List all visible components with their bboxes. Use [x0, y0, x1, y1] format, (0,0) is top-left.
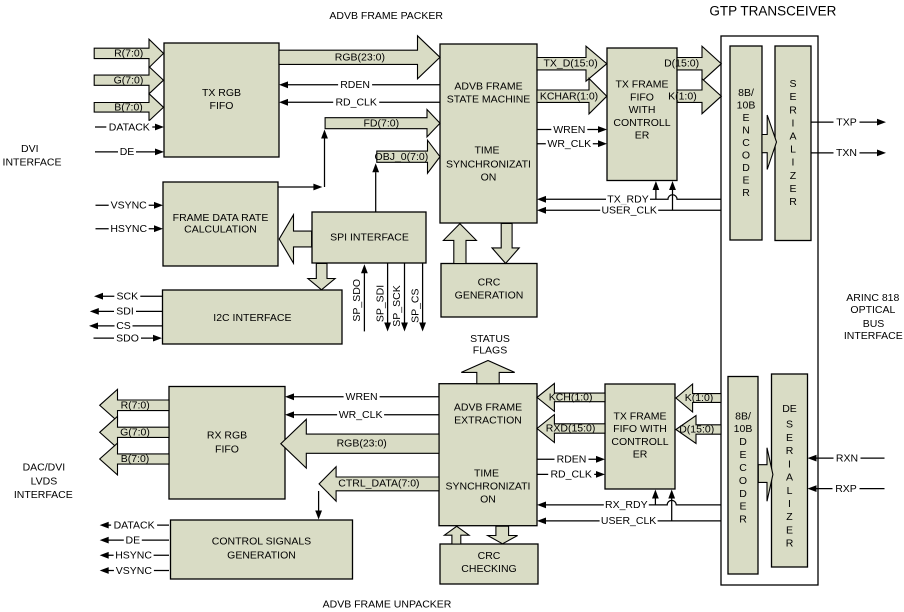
svg-text:USER_CLK: USER_CLK [601, 205, 656, 217]
fat arrow SPI INTERFACE to FRAME DATA RATE CALCULATION [279, 215, 311, 263]
bus RXD(15:0) from bottom FIFO to extraction [537, 415, 605, 443]
svg-text:E: E [739, 501, 746, 513]
svg-text:GENERATION: GENERATION [227, 550, 296, 562]
svg-text:USER_CLK: USER_CLK [601, 515, 656, 527]
svg-text:R: R [789, 104, 797, 116]
wire CS out of I2C INTERFACE [89, 320, 163, 332]
wire SP_SDI down from SPI INTERFACE [374, 264, 391, 332]
svg-text:HSYNC: HSYNC [115, 550, 152, 562]
svg-text:INTERFACE: INTERFACE [14, 489, 73, 501]
svg-text:B(7:0): B(7:0) [121, 453, 150, 465]
svg-text:E: E [789, 91, 796, 103]
svg-text:I: I [792, 117, 795, 129]
svg-text:RD_CLK: RD_CLK [335, 97, 376, 109]
wire RXN into DESERIALIZER [808, 452, 885, 465]
svg-text:BUS: BUS [863, 318, 885, 330]
block SERIALIZER [775, 46, 811, 241]
wire SP_CS down from SPI INTERFACE [409, 264, 426, 332]
svg-text:ADVB FRAME PACKER: ADVB FRAME PACKER [329, 10, 443, 22]
svg-text:FIFO: FIFO [215, 444, 239, 456]
svg-text:10B: 10B [734, 423, 753, 435]
svg-text:RD_CLK: RD_CLK [550, 469, 591, 481]
svg-text:CS: CS [116, 320, 131, 332]
svg-text:S: S [789, 78, 796, 90]
svg-text:E: E [786, 432, 793, 444]
block 8B/10B DECODER [728, 377, 758, 575]
svg-text:D: D [739, 436, 747, 448]
svg-text:GENERATION: GENERATION [455, 289, 524, 301]
bus FD(7:0) into ADVB FRAME STATE MACHINE [325, 110, 440, 137]
svg-text:ADVB FRAME: ADVB FRAME [454, 81, 522, 93]
svg-text:I: I [792, 157, 795, 169]
fat arrow 8B/10B DECODER to DESERIALIZER [758, 448, 773, 502]
svg-text:L: L [787, 485, 793, 497]
svg-text:I: I [788, 498, 791, 510]
svg-text:FLAGS: FLAGS [473, 345, 507, 357]
svg-text:WREN: WREN [346, 391, 378, 403]
svg-text:VSYNC: VSYNC [111, 200, 148, 212]
svg-text:D: D [739, 488, 747, 500]
svg-text:D(15:0): D(15:0) [664, 57, 699, 69]
svg-text:SP_CS: SP_CS [409, 288, 421, 322]
fat arrow CRC GENERATION up into state machine [443, 224, 476, 264]
bus RGB(23:0) from TX RGB FIFO to ADVB FRAME STATE MACHINE [279, 36, 440, 79]
svg-text:R: R [789, 196, 797, 208]
svg-text:DAC/DVI: DAC/DVI [23, 462, 66, 474]
svg-text:A: A [786, 472, 793, 484]
svg-text:R(7:0): R(7:0) [121, 399, 150, 411]
svg-text:HSYNC: HSYNC [110, 223, 147, 235]
svg-text:E: E [742, 174, 749, 186]
svg-text:I: I [788, 459, 791, 471]
wire stub RX_RDY up into bottom FIFO [652, 490, 659, 505]
label DAC/DVI LVDS INTERFACE [14, 462, 73, 501]
svg-text:TX_D(15:0): TX_D(15:0) [543, 57, 597, 69]
block TX FRAME FIFO WITH CONTROLLER (unpacker) [605, 384, 675, 489]
block TX FRAME FIFO WITH CONTROLLER (packer) [607, 48, 677, 181]
svg-text:G(7:0): G(7:0) [120, 426, 150, 438]
svg-text:RGB(23:0): RGB(23:0) [337, 438, 387, 450]
svg-text:WITH: WITH [629, 104, 656, 116]
wire TXN output [811, 147, 886, 159]
svg-text:SP_SDI: SP_SDI [374, 285, 386, 322]
svg-text:KCHAR(1:0): KCHAR(1:0) [540, 91, 598, 103]
block CONTROL SIGNALS GENERATION [171, 520, 353, 579]
wire HSYNC out of CONTROL SIGNALS GENERATION [100, 549, 169, 562]
wire stub USER_CLK up into bottom FIFO [668, 490, 675, 521]
svg-text:SDO: SDO [116, 332, 139, 344]
wire WR_CLK to TX FRAME FIFO [537, 138, 607, 150]
wire stub USER_CLK up into TX FRAME FIFO [669, 181, 676, 210]
svg-text:SPI INTERFACE: SPI INTERFACE [330, 232, 409, 244]
wire WREN into RX RGB FIFO [285, 391, 439, 404]
svg-text:Z: Z [790, 170, 797, 182]
svg-text:Z: Z [786, 511, 793, 523]
svg-text:CHECKING: CHECKING [461, 563, 516, 575]
svg-text:INTERFACE: INTERFACE [3, 156, 62, 168]
wire VSYNC into FRAME DATA RATE CALCULATION [96, 199, 164, 211]
svg-text:R(7:0): R(7:0) [114, 47, 143, 59]
block I2C INTERFACE [163, 290, 343, 344]
svg-text:FIFO WITH: FIFO WITH [613, 423, 667, 435]
wire RDEN to bottom FIFO [537, 453, 605, 466]
wire USER_CLK from GTP to extraction [537, 515, 721, 527]
svg-text:C: C [739, 462, 747, 474]
svg-text:R: R [786, 445, 794, 457]
wire stub TX_RDY up into TX FRAME FIFO [653, 181, 660, 199]
wire DATACK into TX RGB FIFO [95, 121, 164, 134]
bus D(15:0) from GTP to bottom FIFO [676, 416, 721, 444]
block FRAME DATA RATE CALCULATION [163, 182, 278, 266]
block SPI INTERFACE [312, 212, 426, 263]
wire from SPI INTERFACE up to OBJ_0 bus [372, 163, 379, 212]
svg-text:FIFO: FIFO [630, 91, 654, 103]
wire WREN to TX FRAME FIFO [537, 123, 607, 136]
svg-text:CONTROL SIGNALS: CONTROL SIGNALS [212, 536, 311, 548]
wire VSYNC out of CONTROL SIGNALS GENERATION [100, 564, 169, 576]
svg-text:A: A [789, 131, 796, 143]
svg-text:TIME: TIME [474, 467, 499, 479]
svg-text:8B/: 8B/ [738, 87, 754, 99]
bus OBJ_0(7:0) into ADVB FRAME STATE MACHINE [375, 140, 440, 173]
wire DE into TX RGB FIFO [95, 146, 164, 158]
wire RX_RDY from GTP to extraction (hops over USER_CLK stub) [537, 499, 721, 511]
svg-text:DE: DE [120, 146, 135, 158]
fat arrow CRC CHECKING up into extraction [444, 526, 469, 544]
wire SDO into I2C INTERFACE [94, 332, 163, 345]
svg-text:RXP: RXP [835, 483, 857, 495]
svg-text:TXP: TXP [836, 116, 856, 128]
svg-text:ADVB FRAME: ADVB FRAME [454, 402, 522, 414]
box GTP transceiver outline [721, 36, 818, 585]
svg-text:DE: DE [782, 403, 797, 415]
svg-text:DATACK: DATACK [109, 121, 150, 133]
svg-text:GTP TRANSCEIVER: GTP TRANSCEIVER [709, 4, 836, 19]
svg-text:ADVB FRAME UNPACKER: ADVB FRAME UNPACKER [323, 599, 452, 611]
svg-text:FIFO: FIFO [210, 100, 234, 112]
svg-text:RX RGB: RX RGB [207, 430, 247, 442]
svg-text:ON: ON [480, 494, 496, 506]
svg-text:CONTROLL: CONTROLL [611, 436, 668, 448]
svg-text:RX_RDY: RX_RDY [605, 499, 648, 511]
svg-text:TX FRAME: TX FRAME [615, 79, 668, 91]
svg-text:TXN: TXN [836, 147, 857, 159]
wire RXP into DESERIALIZER [808, 482, 885, 495]
svg-text:FRAME DATA RATE: FRAME DATA RATE [173, 212, 269, 224]
fat arrow SPI INTERFACE down into I2C INTERFACE [308, 264, 335, 290]
bus G(7:0) out of RX RGB FIFO [100, 416, 169, 448]
svg-text:I2C INTERFACE: I2C INTERFACE [213, 312, 291, 324]
svg-text:TX FRAME: TX FRAME [613, 410, 666, 422]
svg-text:B(7:0): B(7:0) [114, 101, 143, 113]
svg-text:RXD(15:0): RXD(15:0) [546, 423, 596, 435]
wire RDEN [279, 79, 440, 91]
wire WR_CLK into RX RGB FIFO [285, 409, 439, 422]
svg-text:O: O [739, 475, 747, 487]
svg-text:SDI: SDI [116, 306, 134, 318]
svg-text:O: O [742, 149, 750, 161]
bus D(15:0) into GTP [664, 46, 721, 81]
bus TX_D(15:0) to TX FRAME FIFO [537, 46, 607, 81]
svg-text:R: R [739, 514, 747, 526]
bus B(7:0) out of RX RGB FIFO [100, 443, 169, 475]
label STATUS FLAGS [470, 333, 510, 357]
wire RD_CLK [279, 96, 440, 108]
fat arrow 8B/10B ENCODER to SERIALIZER [762, 115, 777, 170]
svg-text:D(15:0): D(15:0) [679, 424, 714, 436]
wire RD_CLK to bottom FIFO [537, 468, 605, 481]
svg-text:DVI: DVI [21, 143, 39, 155]
block ADVB FRAME STATE MACHINE / TIME SYNCHRONIZATION [440, 44, 537, 223]
svg-text:WR_CLK: WR_CLK [547, 138, 591, 150]
block CRC CHECKING [440, 544, 538, 584]
svg-text:R: R [742, 187, 750, 199]
wire SP_SDO up into SPI INTERFACE [351, 264, 368, 331]
svg-text:CONTROLL: CONTROLL [613, 117, 670, 129]
svg-text:CALCULATION: CALCULATION [184, 224, 257, 236]
svg-text:KCH(1:0): KCH(1:0) [549, 392, 593, 404]
svg-text:K(1:0): K(1:0) [668, 90, 697, 102]
bus R(7:0) into TX RGB FIFO [94, 39, 163, 67]
block CRC GENERATION [441, 264, 537, 318]
svg-text:E: E [789, 183, 796, 195]
svg-text:R: R [786, 538, 794, 550]
svg-text:8B/: 8B/ [735, 411, 751, 423]
wire SCK out of I2C INTERFACE [94, 290, 163, 302]
svg-text:CRC: CRC [478, 550, 501, 562]
bus K(1:0) from GTP to bottom FIFO [676, 384, 721, 412]
svg-text:INTERFACE: INTERFACE [844, 330, 903, 342]
svg-text:L: L [790, 144, 796, 156]
fat arrow extraction down into CRC CHECKING [488, 526, 518, 544]
svg-text:STATE MACHINE: STATE MACHINE [447, 94, 531, 106]
bus B(7:0) into TX RGB FIFO [94, 94, 163, 121]
svg-text:SP_SDO: SP_SDO [351, 279, 363, 322]
bus G(7:0) into TX RGB FIFO [94, 67, 163, 94]
wire DE out of CONTROL SIGNALS GENERATION [100, 534, 169, 546]
block RX RGB FIFO [169, 387, 285, 500]
wire CTRL_DATA down into CONTROL SIGNALS GENERATION [315, 491, 322, 520]
svg-text:SCK: SCK [117, 291, 139, 303]
svg-text:LVDS: LVDS [31, 476, 58, 488]
bus KCHAR(1:0) to TX FRAME FIFO [537, 79, 607, 114]
fat arrow state machine down into CRC GENERATION [492, 224, 519, 264]
svg-text:RGB(23:0): RGB(23:0) [335, 51, 385, 63]
label ARINC 818 OPTICAL BUS INTERFACE [844, 292, 903, 342]
wire from FRAME DATA RATE CALCULATION up to FD bus [278, 130, 328, 191]
svg-text:DE: DE [126, 534, 141, 546]
svg-text:C: C [742, 137, 750, 149]
svg-text:RXN: RXN [836, 452, 858, 464]
svg-text:CRC: CRC [478, 277, 501, 289]
svg-text:DATACK: DATACK [114, 519, 155, 531]
svg-text:ARINC 818: ARINC 818 [846, 292, 899, 304]
svg-text:VSYNC: VSYNC [116, 565, 153, 577]
bus KCH(1:0) from bottom FIFO to extraction [537, 383, 605, 411]
svg-text:G(7:0): G(7:0) [114, 74, 144, 86]
svg-text:TIME: TIME [474, 145, 499, 157]
svg-text:E: E [742, 112, 749, 124]
svg-text:STATUS: STATUS [470, 333, 510, 345]
svg-text:EXTRACTION: EXTRACTION [454, 415, 522, 427]
svg-text:SYNCHRONIZATI: SYNCHRONIZATI [446, 159, 531, 171]
svg-text:E: E [739, 449, 746, 461]
block 8B/10B ENCODER [730, 46, 762, 240]
bus K(1:0) into GTP [668, 79, 721, 114]
svg-text:OPTICAL: OPTICAL [850, 304, 895, 316]
svg-text:ER: ER [635, 130, 650, 142]
bus RGB(23:0) from extraction to RX RGB FIFO [281, 419, 439, 468]
svg-text:OBJ_0(7:0): OBJ_0(7:0) [375, 151, 429, 163]
wire HSYNC into FRAME DATA RATE CALCULATION [96, 223, 164, 235]
wire SDI out of I2C INTERFACE [90, 305, 163, 318]
block ADVB FRAME EXTRACTION / TIME SYNCHRONIZATION [439, 384, 537, 526]
wire USER_CLK from GTP to state machine [537, 204, 721, 216]
wire TX_RDY from GTP to state machine (hops over USER_CLK stub) [537, 193, 721, 205]
svg-text:10B: 10B [737, 99, 756, 111]
label DVI INTERFACE [3, 143, 62, 168]
svg-text:WREN: WREN [553, 124, 585, 136]
wire TXP output [811, 116, 886, 128]
svg-text:CTRL_DATA(7:0): CTRL_DATA(7:0) [338, 478, 419, 490]
wire SP_SCK down from SPI INTERFACE [391, 264, 408, 332]
svg-text:SP_SCK: SP_SCK [391, 285, 403, 326]
fat arrow STATUS FLAGS up from ADVB FRAME EXTRACTION [461, 361, 514, 384]
svg-text:FD(7:0): FD(7:0) [364, 117, 400, 129]
svg-text:ON: ON [481, 172, 497, 184]
bus CTRL_DATA(7:0) from extraction [319, 467, 439, 501]
bus R(7:0) out of RX RGB FIFO [100, 389, 169, 421]
block TX RGB FIFO [164, 43, 279, 157]
svg-text:TX RGB: TX RGB [202, 87, 241, 99]
svg-text:E: E [786, 524, 793, 536]
svg-text:S: S [786, 419, 793, 431]
svg-text:D: D [742, 162, 750, 174]
svg-text:SYNCHRONIZATI: SYNCHRONIZATI [446, 481, 531, 493]
svg-text:RDEN: RDEN [557, 454, 587, 466]
block DESERIALIZER [772, 374, 808, 567]
svg-text:WR_CLK: WR_CLK [339, 409, 383, 421]
svg-text:RDEN: RDEN [340, 79, 370, 91]
wire DATACK out of CONTROL SIGNALS GENERATION [100, 519, 169, 531]
svg-text:N: N [742, 124, 750, 136]
svg-text:K(1:0): K(1:0) [685, 392, 714, 404]
svg-text:ER: ER [633, 449, 648, 461]
